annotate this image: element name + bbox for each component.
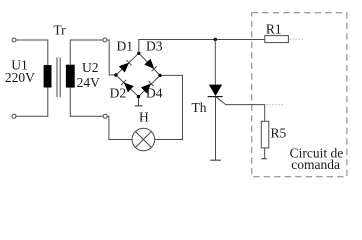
svg-text:24V: 24V xyxy=(77,75,101,90)
svg-text:Tr: Tr xyxy=(53,23,66,38)
svg-text:D1: D1 xyxy=(117,38,134,53)
svg-text:D3: D3 xyxy=(146,38,163,53)
svg-text:U2: U2 xyxy=(82,60,99,75)
svg-text:220V: 220V xyxy=(5,70,35,85)
svg-text:D4: D4 xyxy=(146,86,163,101)
svg-text:R5: R5 xyxy=(271,126,287,141)
svg-text:Th: Th xyxy=(192,100,207,115)
svg-text:D2: D2 xyxy=(110,86,127,101)
svg-text:R1: R1 xyxy=(266,22,282,37)
svg-text:H: H xyxy=(139,109,149,124)
svg-text:comanda: comanda xyxy=(291,157,340,172)
